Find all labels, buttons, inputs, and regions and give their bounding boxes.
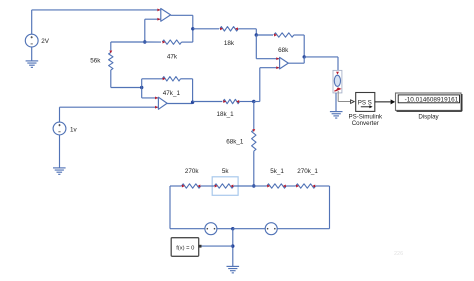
wire 56k top to node A <box>111 41 145 43</box>
resistor R47k_1 <box>162 77 180 81</box>
ground G3 <box>227 265 240 267</box>
wire top rail right <box>316 185 330 187</box>
wire U1 inverting input <box>145 18 161 20</box>
wire U2 output <box>167 103 193 105</box>
svg-text:68k_1: 68k_1 <box>226 139 244 146</box>
wire 56k bottom to node B <box>110 70 112 88</box>
wire node E to 18k_1 <box>193 101 223 103</box>
ground G4 <box>330 111 343 113</box>
wire top rail left <box>170 185 182 187</box>
wire V1 bottom to ground <box>31 47 33 61</box>
arrow into 5k right <box>230 185 233 188</box>
node A junction <box>143 40 146 43</box>
voltage sensor VS1 <box>333 70 342 93</box>
wire V2 top to op-amp U2 input <box>59 107 61 122</box>
arrow into U1 - input <box>157 18 160 21</box>
svg-text:f(x) = 0: f(x) = 0 <box>176 245 194 251</box>
resistor R270k <box>182 184 201 188</box>
ps line sensor to converter <box>337 91 339 102</box>
svg-text:68k: 68k <box>278 47 289 54</box>
wire right side down <box>329 186 331 229</box>
wire 18k_1 to node F <box>240 101 254 103</box>
wire 68k right down to output node D <box>294 34 304 36</box>
arrow into 270k_1 right <box>312 185 315 188</box>
arrow into 18k left <box>220 27 223 30</box>
svg-text:Converter: Converter <box>352 120 379 127</box>
arrow into 270k right <box>197 185 200 188</box>
svg-text:47k_1: 47k_1 <box>163 90 181 97</box>
wire 47k_1 right down to output node E <box>181 78 193 80</box>
source S2 circle <box>265 223 277 235</box>
svg-text:PS: PS <box>358 99 366 106</box>
resistor R5k <box>214 184 233 188</box>
arrow into 68k_1 top <box>252 129 255 132</box>
wire node H down to ground <box>232 229 234 267</box>
arrow into 18k right <box>235 27 238 30</box>
node C junction <box>255 33 258 36</box>
wire solver to node I <box>202 245 233 247</box>
wire node F down to 68k_1 <box>253 102 255 130</box>
wire 270k to 5k <box>201 185 215 187</box>
resistor R47k <box>162 40 181 44</box>
resistor R68k <box>274 33 294 37</box>
display block <box>396 93 462 110</box>
wire node G to 5k_1 <box>254 185 267 187</box>
svg-text:5k_1: 5k_1 <box>270 168 284 175</box>
svg-text:270k: 270k <box>185 168 200 175</box>
op-amp U1 <box>161 9 171 22</box>
svg-text:56k: 56k <box>90 57 101 64</box>
arrow into 5k left <box>215 185 218 188</box>
svg-text:18k_1: 18k_1 <box>217 111 235 118</box>
signal line converter to display <box>375 101 391 103</box>
arrow into U2 + input <box>155 106 158 109</box>
wire U1 output <box>171 14 193 16</box>
resistor R18k <box>220 27 238 31</box>
wire node F up to U3 - input <box>254 101 260 103</box>
svg-text:47k: 47k <box>167 54 178 61</box>
wire node H to S2 <box>233 228 265 230</box>
arrow into U2 - input <box>155 96 158 99</box>
converter block PS-Simulink <box>356 93 375 112</box>
resistor R68k_1 <box>252 130 256 151</box>
wire node C down to U3 + input <box>255 35 257 59</box>
wire 68k feedback left <box>256 34 273 36</box>
arrow into 5k_1 right <box>283 185 286 188</box>
wire U3 output <box>288 62 304 64</box>
arrow into 47k left <box>163 41 166 44</box>
solver block f(x)=0 <box>171 238 199 257</box>
wire V2 bottom to ground <box>59 135 61 168</box>
resistor R56k <box>109 52 113 70</box>
wire bottom rail left <box>170 228 205 230</box>
signal arrowhead into display <box>391 99 396 104</box>
op-amp U3 <box>280 57 289 69</box>
voltage source V2 1v <box>53 122 66 135</box>
resistor R270k_1 <box>296 184 316 188</box>
wire node B to U2 inverting input <box>141 79 143 98</box>
node F junction <box>252 100 255 103</box>
wire sensor bottom to ground <box>335 93 337 111</box>
wire 47k feedback left <box>145 41 161 43</box>
wire bottom rail right <box>277 228 329 230</box>
svg-text:S: S <box>368 99 372 106</box>
resistor R18k_1 <box>223 99 240 103</box>
wire 47k right up to output node <box>182 41 193 43</box>
node D junction <box>303 55 306 58</box>
node E junction <box>191 101 194 104</box>
op-amp U2 <box>158 97 167 109</box>
svg-text:2V: 2V <box>41 38 50 45</box>
arrow into 18k_1 right <box>236 100 239 103</box>
svg-text:270k_1: 270k_1 <box>297 168 318 175</box>
arrow into 47k_1 left <box>163 77 166 80</box>
ground G1 <box>26 60 39 62</box>
ps input port triangle <box>351 100 355 104</box>
wire 5k to node G <box>234 185 254 187</box>
wire 18k to node C <box>238 28 256 30</box>
node I junction <box>231 244 234 247</box>
source S1 circle <box>205 223 217 235</box>
wire node D to voltage sensor <box>304 56 338 58</box>
resistor R5k_1 <box>267 184 286 188</box>
svg-text:226: 226 <box>394 251 403 257</box>
arrow into U3 bottom input <box>276 66 279 69</box>
svg-text:Display: Display <box>418 114 439 121</box>
wire 5k_1 to 270k_1 <box>286 185 296 187</box>
node U1out junction <box>191 27 194 30</box>
arrow into 68k left <box>274 34 277 37</box>
arrow into 56k top <box>109 51 112 54</box>
arrow into U1 + input <box>157 8 160 11</box>
selection box around R5k <box>212 177 238 196</box>
node B junction <box>140 86 143 89</box>
svg-text:5k: 5k <box>222 168 230 175</box>
wire left side down <box>169 186 171 229</box>
node H junction <box>231 227 234 230</box>
arrow into 18k_1 left <box>223 100 226 103</box>
voltage source V1 2V <box>25 34 38 47</box>
svg-text:1v: 1v <box>70 126 78 133</box>
wire output node to 18k <box>193 28 219 30</box>
wire V1 top to op-amp U1 input <box>31 10 33 34</box>
wire 47k_1 feedback left <box>142 78 163 80</box>
svg-text:18k: 18k <box>224 40 235 47</box>
arrow into U3 top input <box>276 57 279 60</box>
arrow into 270k_1 left <box>296 185 299 188</box>
node G junction <box>252 184 255 187</box>
wire 68k_1 bottom to node G <box>253 151 255 186</box>
wire S1 to node H <box>217 228 233 230</box>
arrow into 5k_1 left <box>267 185 270 188</box>
ground G2 <box>53 167 66 169</box>
arrow into 270k left <box>182 185 185 188</box>
svg-text:-10.014608919161: -10.014608919161 <box>405 96 459 103</box>
